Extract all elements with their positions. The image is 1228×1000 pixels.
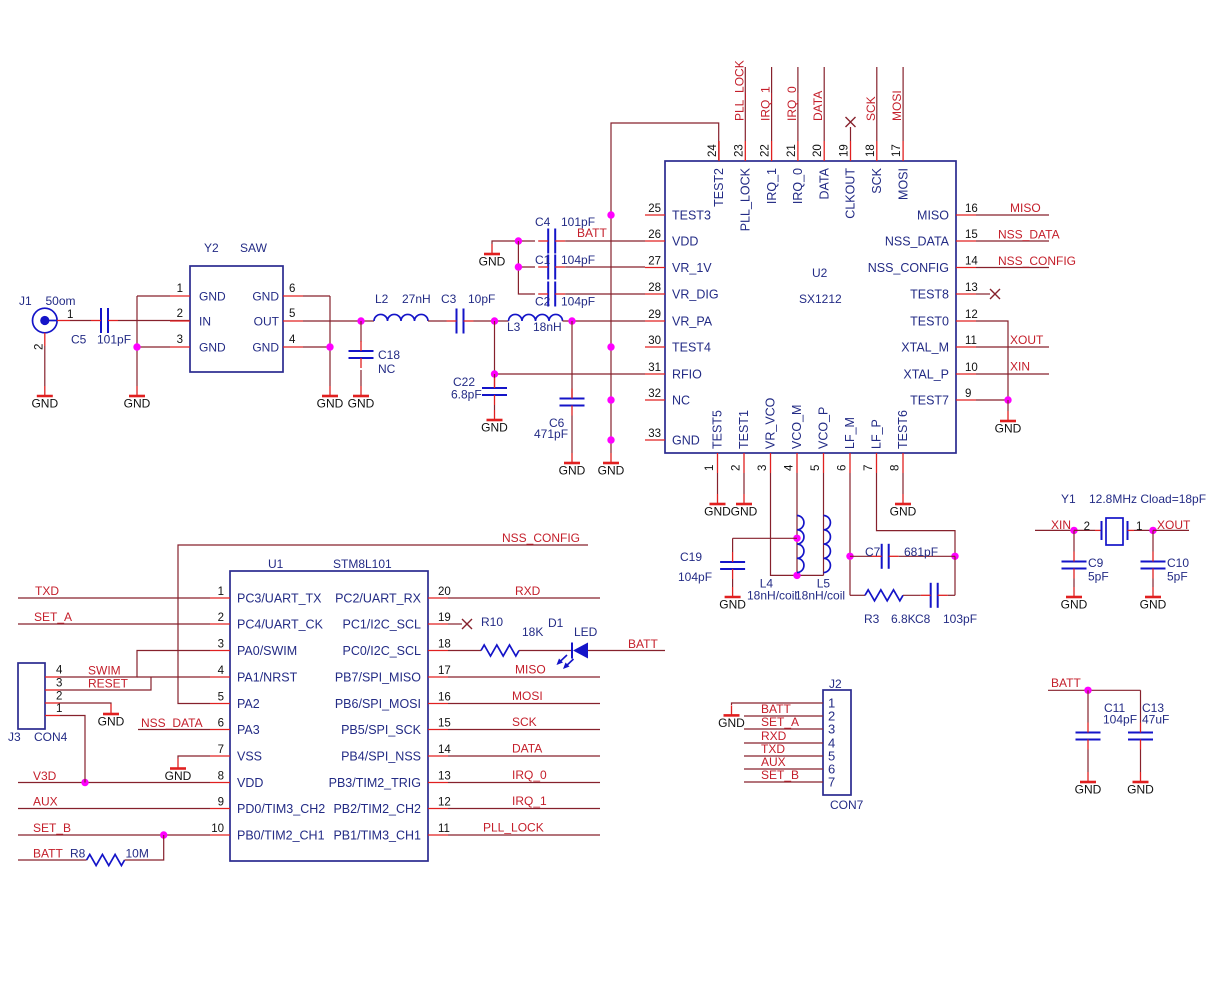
svg-text:SWIM: SWIM — [88, 664, 121, 678]
svg-text:PLL_LOCK: PLL_LOCK — [732, 60, 746, 121]
ground GND (C13) — [1127, 772, 1154, 797]
wire VR_VCO bottom bus — [771, 473, 824, 575]
capacitor C9 5pF — [1062, 530, 1109, 583]
svg-text:19: 19 — [438, 612, 451, 624]
wire C18 to GND — [360, 370, 362, 386]
svg-text:7: 7 — [828, 775, 835, 790]
svg-text:PA3: PA3 — [237, 723, 260, 737]
ground GND (C18) — [348, 386, 375, 411]
svg-text:5pF: 5pF — [1088, 570, 1109, 584]
svg-text:GND: GND — [31, 397, 58, 411]
svg-text:C5: C5 — [71, 333, 87, 347]
net DATA (U1) — [448, 742, 600, 757]
svg-text:MOSI: MOSI — [896, 168, 910, 200]
ground GND (TEST1) — [731, 494, 758, 519]
capacitor C5 101pF — [71, 308, 131, 347]
svg-text:SET_B: SET_B — [33, 821, 71, 835]
svg-text:11: 11 — [965, 335, 977, 347]
wire/net IRQ_1 (U2 top) — [759, 67, 773, 141]
IC U2 SX1212 — [645, 141, 978, 473]
wire J2 pin1 to GND — [732, 703, 824, 705]
svg-text:GND: GND — [481, 421, 508, 435]
svg-text:PB6/SPI_MOSI: PB6/SPI_MOSI — [335, 697, 421, 711]
wire TEST2 top link — [611, 123, 719, 453]
junction C7 right — [951, 553, 958, 560]
junction TEST3 — [607, 211, 614, 218]
svg-text:1: 1 — [704, 465, 716, 471]
junction SET_B / R8 — [160, 831, 167, 838]
svg-text:NSS_DATA: NSS_DATA — [141, 716, 203, 730]
svg-text:BATT: BATT — [761, 702, 791, 716]
junction at C6 branch — [568, 317, 575, 324]
svg-text:15: 15 — [438, 718, 451, 730]
svg-text:681pF: 681pF — [904, 545, 938, 559]
svg-text:BATT: BATT — [577, 226, 607, 240]
svg-text:11: 11 — [438, 823, 450, 835]
svg-text:PB5/SPI_SCK: PB5/SPI_SCK — [341, 723, 422, 737]
svg-text:AUX: AUX — [33, 795, 58, 809]
svg-text:VDD: VDD — [672, 235, 698, 249]
svg-text:MISO: MISO — [1010, 201, 1041, 215]
junction at Y2 pin4 — [326, 343, 333, 350]
junction at C22 — [491, 370, 498, 377]
wire C13 to GND — [1140, 750, 1142, 773]
svg-text:9: 9 — [218, 797, 224, 809]
svg-text:GND: GND — [890, 505, 917, 519]
svg-text:5pF: 5pF — [1167, 570, 1188, 584]
net AUX (J2) — [744, 755, 823, 769]
wire C22 to GND — [494, 405, 496, 410]
wire C4 to U2 VDD pin26 — [565, 240, 645, 242]
svg-text:C4: C4 — [535, 215, 551, 229]
svg-text:TEST3: TEST3 — [672, 209, 711, 223]
capacitor C2 104pF — [535, 282, 595, 309]
ground GND (TEST7) — [995, 411, 1022, 436]
net XOUT (U2 XTAL_M) — [976, 333, 1049, 347]
wire L2 to C3 — [428, 320, 447, 322]
ground GND (C11) — [1075, 772, 1102, 797]
svg-text:CLKOUT: CLKOUT — [844, 168, 858, 219]
svg-text:GND: GND — [719, 598, 746, 612]
connector J3 CON4 — [8, 663, 68, 744]
svg-text:C7: C7 — [865, 545, 881, 559]
svg-text:XOUT: XOUT — [1010, 333, 1044, 347]
junction LF_M / C7 — [846, 553, 853, 560]
svg-text:PB7/SPI_MISO: PB7/SPI_MISO — [335, 671, 421, 685]
svg-text:1: 1 — [1136, 521, 1142, 533]
svg-text:RESET: RESET — [88, 677, 129, 691]
svg-text:V3D: V3D — [33, 769, 57, 783]
svg-text:TEST4: TEST4 — [672, 341, 711, 355]
svg-text:SCK: SCK — [512, 715, 537, 729]
svg-text:13: 13 — [438, 771, 451, 783]
svg-text:PA1/NRST: PA1/NRST — [237, 671, 298, 685]
svg-text:101pF: 101pF — [97, 333, 131, 347]
ground GND (Y2 right) — [317, 386, 344, 411]
svg-text:L3: L3 — [507, 320, 521, 334]
svg-text:14: 14 — [438, 744, 451, 756]
svg-text:7: 7 — [863, 465, 875, 471]
svg-text:471pF: 471pF — [534, 427, 568, 441]
wire R8 to SET_B — [125, 835, 164, 860]
svg-text:10: 10 — [965, 362, 978, 374]
svg-text:PB4/SPI_NSS: PB4/SPI_NSS — [341, 750, 421, 764]
svg-text:GND: GND — [704, 505, 731, 519]
svg-text:MISO: MISO — [917, 209, 949, 223]
svg-text:VR_VCO: VR_VCO — [764, 397, 778, 449]
svg-text:AUX: AUX — [761, 755, 786, 769]
svg-text:L2: L2 — [375, 292, 389, 306]
svg-text:XIN: XIN — [1010, 360, 1030, 374]
svg-text:GND: GND — [348, 397, 375, 411]
svg-text:J3: J3 — [8, 730, 21, 744]
svg-text:TEST7: TEST7 — [910, 394, 949, 408]
inductor L2 27nH — [374, 292, 431, 321]
svg-text:GND: GND — [1140, 598, 1167, 612]
wire TEST7 to GND — [1007, 400, 1009, 411]
ground GND (J1) — [31, 386, 58, 411]
svg-text:31: 31 — [648, 362, 661, 374]
capacitor C7 681pF — [850, 544, 955, 569]
svg-text:PB3/TIM2_TRIG: PB3/TIM2_TRIG — [329, 776, 421, 790]
svg-text:10: 10 — [211, 823, 224, 835]
svg-text:GND: GND — [1061, 598, 1088, 612]
svg-text:5: 5 — [218, 692, 224, 704]
svg-text:XTAL_P: XTAL_P — [903, 368, 949, 382]
svg-text:GND: GND — [718, 716, 745, 730]
wire R3 to C8 — [903, 594, 921, 596]
junction TEST4 — [607, 343, 614, 350]
net IRQ_1 (U1) — [448, 794, 600, 809]
svg-text:LED: LED — [574, 625, 598, 639]
wire TEST1 pin2 to GND — [743, 473, 745, 494]
ground GND (C10) — [1140, 587, 1167, 612]
svg-text:18: 18 — [438, 639, 451, 651]
wire C19 to GND — [732, 579, 734, 587]
junction NC pin32 — [607, 396, 614, 403]
svg-text:GND: GND — [995, 422, 1022, 436]
wire VCO_M vertical — [796, 473, 798, 575]
svg-text:BATT: BATT — [1051, 676, 1081, 690]
net AUX (U1 pin9) — [18, 795, 210, 809]
junction C1 left — [515, 263, 522, 270]
svg-text:4: 4 — [56, 665, 63, 677]
capacitor C3 10pF — [441, 292, 495, 334]
svg-text:TEST5: TEST5 — [711, 410, 725, 449]
svg-text:3: 3 — [218, 639, 224, 651]
svg-text:1: 1 — [56, 703, 62, 715]
svg-text:PLL_LOCK: PLL_LOCK — [483, 821, 544, 835]
svg-text:103pF: 103pF — [943, 612, 977, 626]
svg-text:C18: C18 — [378, 348, 400, 362]
svg-text:GND: GND — [98, 715, 125, 729]
wire R10 to LED D1 — [519, 650, 571, 652]
ground GND (J3 pin2) — [98, 704, 125, 729]
LED D1 — [548, 616, 598, 669]
svg-text:GND: GND — [317, 397, 344, 411]
net SET_A (U1 pin2) — [18, 610, 210, 624]
no-connect X TEST8 — [976, 289, 1000, 299]
wire C9 to GND — [1073, 579, 1075, 588]
svg-text:16: 16 — [438, 692, 451, 704]
svg-text:28: 28 — [648, 282, 661, 294]
svg-text:25: 25 — [648, 203, 661, 215]
junction C4 left — [515, 237, 522, 244]
wire Y2 pin6/pin4 to GND — [303, 295, 330, 297]
junction node OUT — [357, 317, 364, 324]
capacitor C11 104pF — [1076, 690, 1138, 749]
svg-text:3: 3 — [177, 334, 183, 346]
svg-text:104pF: 104pF — [561, 253, 595, 267]
svg-text:IRQ_0: IRQ_0 — [791, 168, 805, 204]
svg-text:NSS_CONFIG: NSS_CONFIG — [998, 254, 1076, 268]
svg-text:IRQ_0: IRQ_0 — [785, 86, 799, 121]
svg-text:IRQ_0: IRQ_0 — [512, 768, 547, 782]
wire C3 to L3 — [474, 320, 509, 322]
wire C7 right to C8 riser — [954, 556, 956, 595]
svg-text:MOSI: MOSI — [512, 689, 543, 703]
net SCK (U1) — [448, 715, 600, 730]
svg-text:Y2: Y2 — [204, 241, 219, 255]
svg-text:2: 2 — [1084, 521, 1090, 533]
svg-text:PC3/UART_TX: PC3/UART_TX — [237, 592, 322, 606]
svg-text:3: 3 — [828, 722, 835, 737]
svg-text:18nH/coil: 18nH/coil — [795, 589, 845, 603]
svg-text:27nH: 27nH — [402, 292, 431, 306]
wire L3 to U2 VR_PA — [563, 320, 646, 322]
wire to GND elbow (C4) — [492, 241, 495, 244]
svg-text:DATA: DATA — [817, 167, 831, 199]
wire C11 to GND — [1087, 750, 1089, 773]
svg-text:GND: GND — [731, 505, 758, 519]
svg-text:VR_DIG: VR_DIG — [672, 288, 719, 302]
svg-text:R8: R8 — [70, 847, 86, 861]
svg-text:23: 23 — [733, 144, 745, 157]
net XIN (U2 XTAL_P) — [976, 360, 1049, 375]
wire J3 pin2 to GND — [60, 703, 111, 704]
wire C6 to GND — [571, 416, 573, 454]
net IRQ_0 (U1) — [448, 768, 600, 783]
net SET_B (U1 pin10) — [18, 821, 210, 835]
net XIN (Y1) — [1035, 518, 1074, 532]
svg-text:21: 21 — [786, 144, 798, 157]
svg-text:VR_1V: VR_1V — [672, 261, 712, 275]
svg-text:4: 4 — [289, 334, 296, 346]
wire Y2 pin5 OUT — [303, 320, 374, 322]
ground GND (J2) — [718, 705, 745, 730]
svg-text:5: 5 — [810, 465, 822, 471]
svg-text:GND: GND — [252, 290, 279, 304]
capacitor C6 471pF — [534, 321, 585, 441]
svg-text:PB2/TIM2_CH2: PB2/TIM2_CH2 — [333, 802, 421, 816]
svg-text:18: 18 — [865, 144, 877, 157]
inductor L3 18nH — [507, 314, 563, 334]
svg-text:RFIO: RFIO — [672, 368, 702, 382]
wire VSS to GND — [178, 756, 210, 759]
svg-text:6.8K: 6.8K — [891, 612, 916, 626]
svg-text:8: 8 — [890, 465, 902, 471]
svg-text:SCK: SCK — [864, 96, 878, 121]
svg-text:26: 26 — [648, 229, 661, 241]
svg-text:J2: J2 — [829, 677, 842, 691]
junction V3D / J3 pin1 — [81, 779, 88, 786]
wire/net MOSI (U2 top) — [890, 67, 904, 141]
net RXD (J2) — [744, 729, 823, 743]
wire/net IRQ_0 (U2 top) — [785, 67, 799, 141]
wire RESET J3 pin3 to PA1 — [60, 677, 151, 690]
svg-text:LF_M: LF_M — [843, 417, 857, 449]
svg-text:24: 24 — [707, 144, 719, 157]
svg-text:MOSI: MOSI — [890, 90, 904, 121]
wire/net DATA (U2 top) — [811, 67, 825, 141]
svg-text:SCK: SCK — [870, 167, 884, 193]
svg-text:19: 19 — [839, 144, 851, 157]
svg-text:50om: 50om — [46, 294, 76, 308]
capacitor C8 103pF — [915, 583, 977, 626]
svg-text:IRQ_1: IRQ_1 — [765, 168, 779, 204]
svg-text:16: 16 — [965, 203, 978, 215]
svg-text:3: 3 — [56, 678, 62, 690]
svg-text:SET_A: SET_A — [761, 715, 799, 729]
svg-text:27: 27 — [648, 256, 661, 268]
svg-text:BATT: BATT — [33, 847, 63, 861]
capacitor C4 101pF — [535, 215, 595, 254]
svg-text:VCO_M: VCO_M — [790, 405, 804, 449]
svg-text:PC2/UART_RX: PC2/UART_RX — [335, 592, 422, 606]
svg-text:RXD: RXD — [515, 584, 541, 598]
wire J3 pin1 to V3D — [60, 716, 85, 783]
wire C19 tap — [733, 537, 797, 539]
svg-text:SET_A: SET_A — [34, 610, 72, 624]
svg-text:VR_PA: VR_PA — [672, 315, 713, 329]
net BATT (filter) — [1048, 676, 1141, 690]
capacitor C10 5pF — [1141, 530, 1190, 583]
svg-text:NSS_CONFIG: NSS_CONFIG — [868, 261, 949, 275]
wire RFIO vertical branch — [494, 321, 496, 374]
ground GND (C19) — [719, 587, 746, 612]
ground GND (VSS) — [165, 759, 192, 784]
svg-text:RXD: RXD — [761, 729, 787, 743]
wire J1 to C5 — [70, 320, 91, 322]
svg-text:47uF: 47uF — [1142, 713, 1169, 727]
svg-text:U1: U1 — [268, 557, 284, 571]
svg-text:29: 29 — [648, 309, 661, 321]
wire GND net at Y2 left (pins 1,3) — [136, 296, 138, 386]
svg-text:VCO_P: VCO_P — [817, 407, 831, 449]
junction TEST7 — [1004, 396, 1011, 403]
ground GND (TEST5) — [704, 494, 731, 519]
ground GND (C9) — [1061, 587, 1088, 612]
svg-text:4: 4 — [784, 464, 796, 471]
svg-text:6: 6 — [218, 718, 224, 730]
junction VCO_M bottom — [793, 572, 800, 579]
svg-text:PC0/I2C_SCL: PC0/I2C_SCL — [342, 644, 421, 658]
svg-text:6: 6 — [289, 283, 295, 295]
svg-text:GND: GND — [199, 341, 226, 355]
svg-text:1: 1 — [177, 283, 183, 295]
svg-text:9: 9 — [965, 388, 971, 400]
wire C8 to riser — [948, 594, 955, 596]
svg-text:CON4: CON4 — [34, 730, 68, 744]
inductor L5 18nH/coil — [795, 516, 845, 603]
wire C4-C1-C2 left bus — [518, 241, 535, 294]
svg-text:22: 22 — [760, 144, 772, 157]
svg-text:MISO: MISO — [515, 663, 546, 677]
svg-text:10M: 10M — [126, 847, 149, 861]
svg-text:GND: GND — [479, 255, 506, 269]
svg-text:2: 2 — [34, 344, 46, 350]
wire LED to BATT — [588, 650, 665, 652]
net BATT (R8) — [18, 847, 87, 861]
svg-text:C3: C3 — [441, 292, 457, 306]
wire C2 to U2 VR_DIG pin28 — [565, 293, 645, 295]
svg-text:2: 2 — [218, 612, 224, 624]
svg-text:30: 30 — [648, 335, 661, 347]
svg-text:D1: D1 — [548, 616, 564, 630]
net PLL_LOCK (U1) — [448, 821, 600, 836]
svg-text:TEST0: TEST0 — [910, 315, 949, 329]
svg-text:C9: C9 — [1088, 556, 1104, 570]
svg-text:TEST2: TEST2 — [712, 168, 726, 207]
svg-text:NC: NC — [378, 362, 396, 376]
wire/net SCK (U2 top) — [864, 67, 878, 141]
svg-text:DATA: DATA — [512, 742, 542, 756]
svg-text:17: 17 — [891, 144, 903, 157]
junction XOUT — [1149, 527, 1156, 534]
net TXD (J2) — [744, 742, 823, 756]
svg-text:TXD: TXD — [761, 742, 785, 756]
net V3D (U1 pin8) — [18, 769, 210, 783]
svg-text:IRQ_1: IRQ_1 — [512, 794, 547, 808]
wire NSS_CONFIG to PA2 — [178, 545, 588, 704]
svg-text:C2: C2 — [535, 295, 551, 309]
svg-text:5: 5 — [289, 308, 295, 320]
SAW filter Y2 — [170, 241, 303, 372]
svg-text:104pF: 104pF — [1103, 713, 1137, 727]
resistor R10 18K — [448, 615, 543, 656]
svg-text:DATA: DATA — [811, 91, 825, 121]
junction BATT/C11 — [1084, 687, 1091, 694]
svg-text:LF_P: LF_P — [870, 419, 884, 449]
svg-text:PA0/SWIM: PA0/SWIM — [237, 644, 297, 658]
net NSS_DATA (U2) — [976, 228, 1060, 242]
wire LF_P elbow — [877, 473, 956, 556]
svg-text:PC1/I2C_SCL: PC1/I2C_SCL — [342, 618, 421, 632]
svg-text:4: 4 — [218, 665, 225, 677]
svg-text:20: 20 — [438, 586, 451, 598]
net XOUT (Y1) — [1153, 518, 1191, 532]
net MISO (U1) — [448, 663, 600, 678]
svg-text:6.8pF: 6.8pF — [451, 388, 482, 402]
net SET_B (J2) — [744, 768, 823, 782]
net RXD (U1 pin20) — [448, 584, 600, 598]
wire VCO_P vertical — [823, 473, 825, 575]
resistor R8 10M — [70, 847, 149, 866]
junction C19 tap — [793, 535, 800, 542]
ground GND (C6) — [559, 453, 586, 478]
svg-text:Y1: Y1 — [1061, 492, 1076, 506]
ground GND (U2 pin33 bus) — [598, 453, 625, 478]
connector J2 CON7 — [823, 677, 864, 812]
svg-text:12: 12 — [438, 797, 451, 809]
svg-text:SET_B: SET_B — [761, 768, 799, 782]
wire C1 to U2 VR_1V pin27 — [565, 266, 645, 268]
svg-text:6: 6 — [837, 465, 849, 471]
svg-text:XTAL_M: XTAL_M — [901, 341, 949, 355]
wire J1 pin2 to GND — [44, 346, 46, 386]
svg-text:PB1/TIM3_CH1: PB1/TIM3_CH1 — [333, 829, 421, 843]
svg-text:PLL_LOCK: PLL_LOCK — [739, 167, 753, 231]
